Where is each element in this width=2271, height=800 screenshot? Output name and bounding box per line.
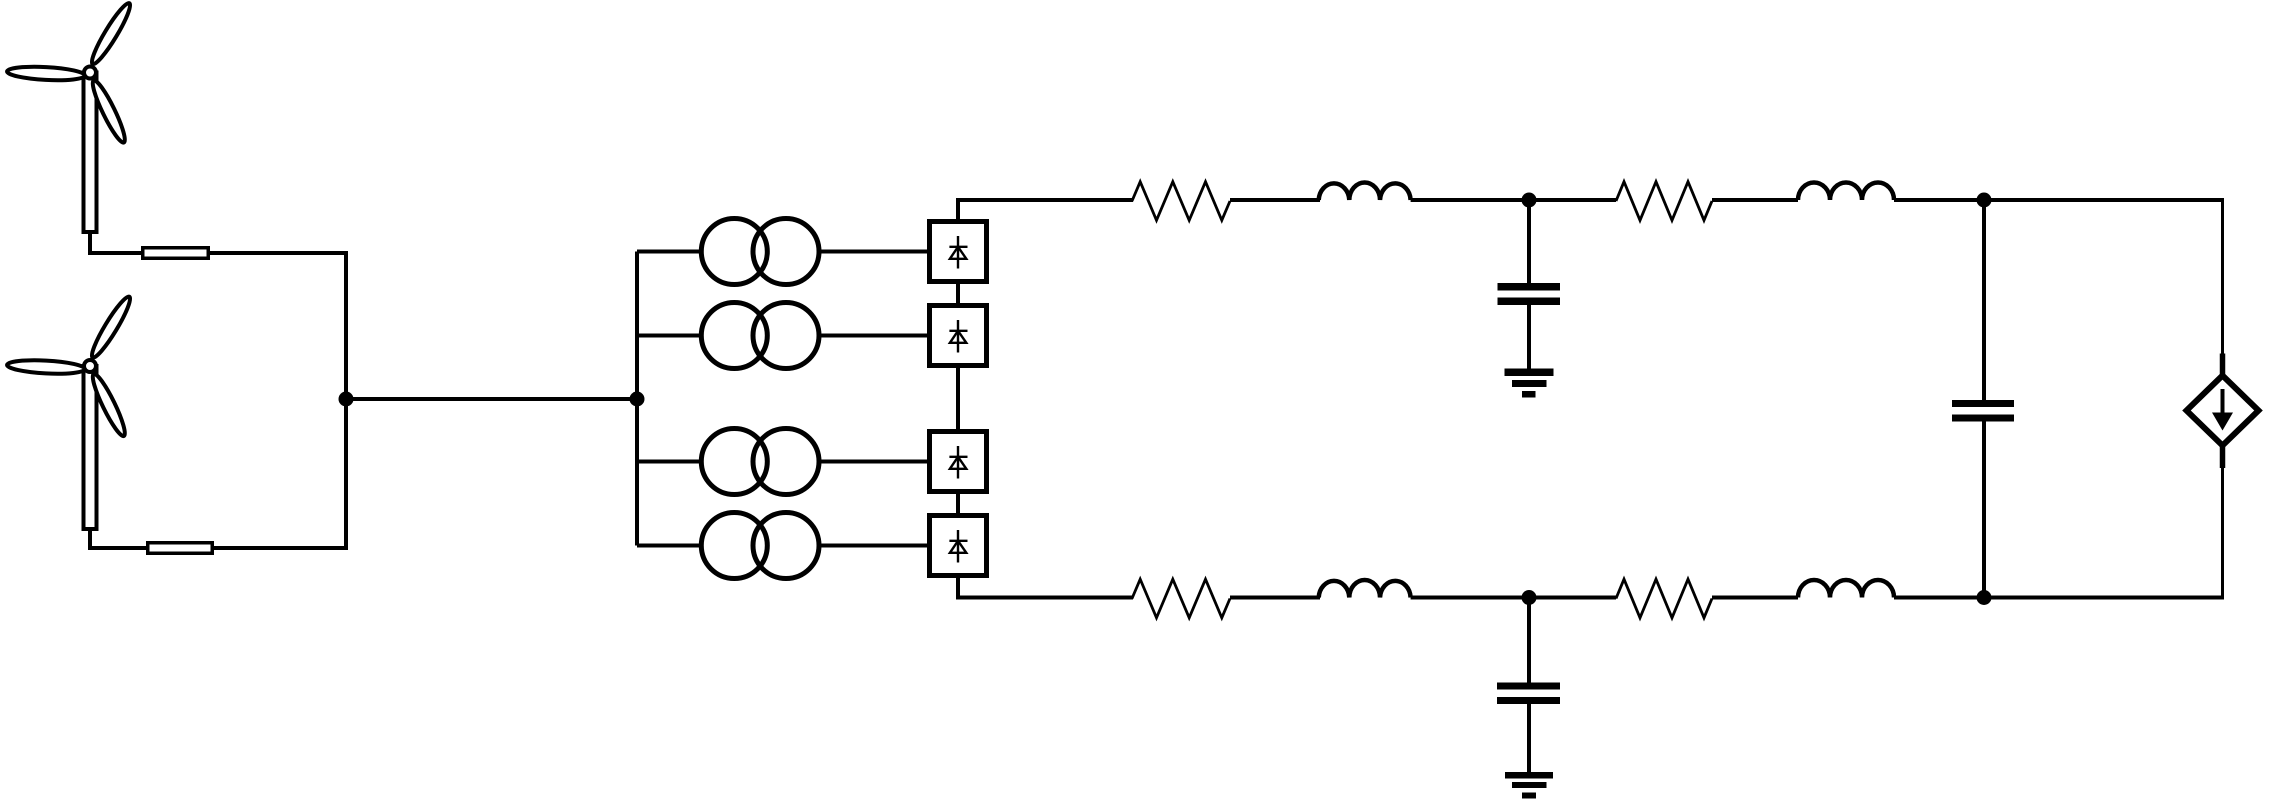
wire WT1 to R1 — [90, 230, 143, 253]
wire C3 to ground — [1527, 704, 1531, 774]
capacitor C3 (bottom shunt) — [1497, 683, 1560, 705]
resistor Rt2 (top line) — [1616, 182, 1712, 221]
resistor Rb1 (bottom line) — [1132, 579, 1230, 618]
node top right — [1977, 193, 1992, 208]
wire transformer T2 to converter U2 — [821, 334, 927, 338]
wire distribution bus — [635, 252, 639, 546]
wire collector to distribution — [346, 397, 637, 401]
wire bus to transformer T2 — [637, 334, 701, 338]
wire — [1712, 198, 1798, 202]
inductor Lt2 (top line) — [1798, 183, 1894, 201]
inductor Lb1 (bottom line) — [1319, 580, 1411, 598]
resistor Rb2 (bottom line) — [1616, 579, 1712, 618]
wind turbine WT1 — [7, 0, 135, 232]
current source I1 terminal stub top — [2220, 354, 2226, 378]
wire — [1712, 596, 1798, 600]
inductor Lb2 (bottom line) — [1798, 580, 1894, 598]
node bottom line mid — [1522, 590, 1537, 605]
wire — [1230, 596, 1320, 600]
current source I1 (controlled, diamond) — [2187, 376, 2259, 446]
wire node to C1 — [1527, 200, 1531, 284]
wire WT2 to R2 — [90, 527, 148, 548]
converter U1 (diode box) — [930, 222, 987, 282]
wire U3 to U4 — [956, 494, 960, 513]
wire U2 to U3 — [956, 368, 960, 429]
wire U1 to top rail — [958, 200, 1133, 219]
wire top rail to current source — [2221, 198, 2224, 355]
wire bus to transformer T3 — [637, 460, 701, 464]
capacitor C2 (mid shunt) — [1952, 400, 2014, 422]
ground (bottom line) — [1505, 772, 1553, 799]
wire R1 to collector bus — [210, 251, 348, 255]
wind turbine WT2 — [7, 294, 135, 529]
resistor R2 (WT2 series) — [148, 543, 213, 554]
transformer T1 — [701, 219, 819, 285]
wire top node to C2 — [1982, 200, 1986, 401]
wire U1 to U2 — [956, 284, 960, 303]
wire — [1894, 198, 2224, 202]
wire transformer T3 to converter U3 — [821, 460, 927, 464]
transformer T4 — [701, 513, 819, 579]
node bottom right — [1977, 590, 1992, 605]
node top line mid — [1522, 193, 1537, 208]
transformer T3 — [701, 429, 819, 495]
capacitor C1 (top shunt) — [1498, 283, 1561, 305]
converter U3 (diode box) — [930, 432, 987, 492]
node collector junction — [339, 392, 354, 407]
transformer T2 — [701, 303, 819, 369]
wire C1 to ground — [1527, 305, 1531, 370]
wire C2 to bottom rail — [1982, 421, 1986, 598]
wire transformer T4 to converter U4 — [821, 544, 927, 548]
inductor Lt1 (top line) — [1319, 182, 1411, 200]
wire node to C3 — [1527, 598, 1531, 684]
resistor R1 (WT1 series) — [143, 248, 209, 259]
converter U4 (diode box) — [930, 516, 987, 576]
current source I1 terminal stub bottom — [2220, 444, 2226, 468]
wire collector bus — [344, 253, 348, 548]
wire — [1411, 198, 1616, 202]
wire U4 to bottom rail — [958, 578, 1133, 598]
resistor Rt1 (top line) — [1132, 182, 1230, 221]
wire bus to transformer T1 — [637, 250, 701, 254]
ground (top line) — [1505, 369, 1554, 398]
wire R2 to collector bus — [214, 546, 348, 550]
wire bus to transformer T4 — [637, 544, 701, 548]
wire — [1411, 596, 1616, 600]
converter U2 (diode box) — [930, 306, 987, 366]
wire — [1230, 198, 1320, 202]
wire current source to bottom rail — [2221, 466, 2224, 600]
node distribution junction — [630, 392, 645, 407]
wire — [1894, 596, 2224, 600]
wire transformer T1 to converter U1 — [821, 250, 927, 254]
